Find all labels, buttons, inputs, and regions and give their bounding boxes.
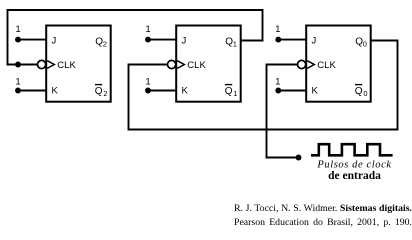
svg-text:1: 1	[275, 77, 280, 87]
svg-text:1: 1	[15, 77, 20, 87]
svg-text:K: K	[182, 86, 189, 97]
svg-text:J: J	[52, 36, 57, 47]
svg-text:1: 1	[145, 77, 150, 87]
svg-text:K: K	[52, 86, 59, 97]
svg-text:de entrada: de entrada	[328, 170, 381, 182]
svg-text:2: 2	[103, 89, 107, 98]
svg-text:J: J	[182, 36, 187, 47]
svg-text:Q: Q	[95, 86, 103, 97]
svg-text:1: 1	[145, 24, 150, 34]
svg-text:1: 1	[15, 24, 20, 34]
svg-text:J: J	[312, 36, 317, 47]
svg-text:CLK: CLK	[57, 60, 76, 71]
svg-text:CLK: CLK	[317, 60, 336, 71]
svg-text:0: 0	[363, 40, 367, 49]
svg-text:CLK: CLK	[187, 60, 206, 71]
svg-text:1: 1	[275, 24, 280, 34]
svg-text:2: 2	[103, 40, 107, 49]
svg-text:Q: Q	[355, 86, 363, 97]
svg-text:0: 0	[363, 89, 367, 98]
svg-text:1: 1	[233, 40, 237, 49]
svg-text:Q: Q	[225, 86, 233, 97]
svg-text:1: 1	[233, 89, 237, 98]
svg-text:K: K	[312, 86, 319, 97]
